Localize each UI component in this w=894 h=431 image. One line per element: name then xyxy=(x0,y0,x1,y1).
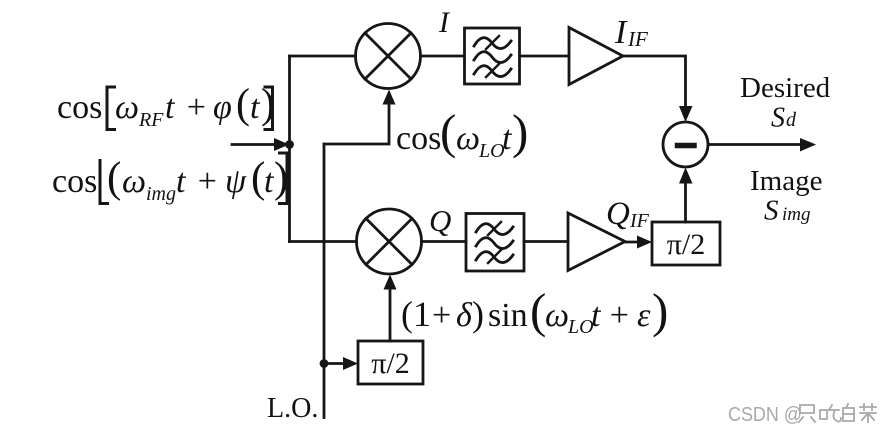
svg-text:π/2: π/2 xyxy=(371,347,409,380)
right bracket of RF formula xyxy=(265,87,273,130)
LO vertical wire xyxy=(323,144,326,418)
svg-text:π/2: π/2 xyxy=(667,228,705,261)
svg-text:CSDN @: CSDN @ xyxy=(728,404,802,426)
svg-text:): ) xyxy=(472,294,484,334)
svg-text:φ: φ xyxy=(213,89,232,126)
input junction node xyxy=(285,140,294,149)
svg-text:δ: δ xyxy=(456,297,473,334)
wire filter1 to amp1 xyxy=(520,55,570,58)
input wire with arrow into node xyxy=(232,143,276,146)
svg-text:ω: ω xyxy=(115,89,139,126)
svg-text:): ) xyxy=(512,104,528,159)
wire amp2 to P1 with arrow xyxy=(625,241,640,244)
amplifier A2 (lower) xyxy=(568,213,625,271)
label Sd xyxy=(771,103,797,134)
main input vertical wire xyxy=(288,56,291,242)
watermark glyph cai xyxy=(860,404,876,422)
svg-text:I: I xyxy=(614,14,628,51)
svg-text:ω: ω xyxy=(122,163,146,200)
svg-text:RF: RF xyxy=(138,109,164,131)
svg-text:(1: (1 xyxy=(401,294,431,334)
svg-text:+: + xyxy=(432,297,451,334)
svg-text:(: ( xyxy=(236,82,250,128)
left bracket of RF formula xyxy=(107,87,115,130)
svg-text:cos: cos xyxy=(396,120,441,157)
label (1+delta)sin(wLO t+eps) xyxy=(401,283,668,338)
svg-text:(: ( xyxy=(107,155,121,202)
wire amp1 to subtractor (corner, down arrow) xyxy=(623,56,686,106)
svg-text:+: + xyxy=(191,163,224,200)
label cos(wLO t) xyxy=(396,104,528,162)
right bracket of image formula xyxy=(280,153,288,204)
amplifier A1 (upper) xyxy=(569,28,623,85)
wire P1 up to subtractor with arrow xyxy=(684,184,687,222)
svg-text:I: I xyxy=(438,6,451,39)
RF input formula cos[wRFt+phi(t)] xyxy=(57,82,275,132)
svg-text:S: S xyxy=(771,103,785,134)
phase shifter P1 (pi/2, right) xyxy=(652,222,720,265)
svg-text:t: t xyxy=(250,89,261,126)
LO junction node xyxy=(320,359,329,368)
wire mixer1 to filter1 xyxy=(421,55,465,58)
wire to upper mixer xyxy=(290,55,356,58)
left floor bracket of image formula xyxy=(100,161,108,204)
svg-text:+: + xyxy=(180,89,213,126)
svg-text:LO: LO xyxy=(567,316,594,338)
svg-text:cos: cos xyxy=(52,163,97,200)
svg-text:L.O.: L.O. xyxy=(267,393,318,424)
svg-text:Desired: Desired xyxy=(740,72,831,104)
svg-text:IF: IF xyxy=(627,27,648,51)
svg-text:S: S xyxy=(764,195,779,227)
svg-text:t: t xyxy=(591,297,602,334)
output wire with arrow xyxy=(708,143,801,146)
LO branch to mixer1: cos(wLO t) xyxy=(324,105,389,144)
svg-text:cos: cos xyxy=(57,89,102,126)
watermark glyph zhi xyxy=(799,405,815,422)
svg-text:ω: ω xyxy=(456,120,480,157)
svg-text:Q: Q xyxy=(606,196,630,232)
svg-text:img: img xyxy=(146,183,176,205)
mixer M1 (upper) xyxy=(356,24,421,89)
filter F1 (upper band-pass) xyxy=(465,28,520,84)
mixer M2 (lower) xyxy=(357,209,422,274)
svg-text:+: + xyxy=(603,297,636,334)
svg-text:ψ: ψ xyxy=(225,163,247,200)
wire LO to phase shifter P2 with arrow xyxy=(324,362,343,365)
svg-text:img: img xyxy=(782,204,811,225)
subtractor node (minus circle) xyxy=(663,122,708,167)
svg-text:Q: Q xyxy=(429,203,451,238)
image input formula cos[(w_img t+psi(t)] xyxy=(52,155,288,206)
wire filter2 to amp2 xyxy=(524,240,568,243)
wire P2 up to mixer2 with arrow xyxy=(389,290,392,341)
filter F2 (lower band-pass) xyxy=(466,214,524,272)
watermark glyph bai xyxy=(843,404,854,421)
svg-text:d: d xyxy=(786,109,797,131)
svg-text:t: t xyxy=(176,163,187,200)
svg-text:LO: LO xyxy=(478,140,505,162)
wire to lower mixer xyxy=(290,240,357,243)
phase shifter P2 (pi/2, lower) xyxy=(358,341,423,384)
wire mixer2 to filter2 xyxy=(422,240,467,243)
label I_IF xyxy=(614,14,648,51)
watermark glyph chi xyxy=(820,405,841,422)
label Simg xyxy=(764,195,811,227)
svg-text:(: ( xyxy=(530,283,546,338)
svg-text:): ) xyxy=(652,283,668,338)
watermark CSDN xyxy=(728,404,802,426)
svg-text:ω: ω xyxy=(545,297,569,334)
label Q_IF xyxy=(606,196,650,232)
svg-text:t: t xyxy=(165,89,176,126)
svg-text:Image: Image xyxy=(750,165,822,197)
svg-text:IF: IF xyxy=(629,210,650,232)
svg-text:(: ( xyxy=(440,104,456,159)
svg-text:ε: ε xyxy=(637,297,651,334)
svg-text:sin: sin xyxy=(488,297,528,334)
